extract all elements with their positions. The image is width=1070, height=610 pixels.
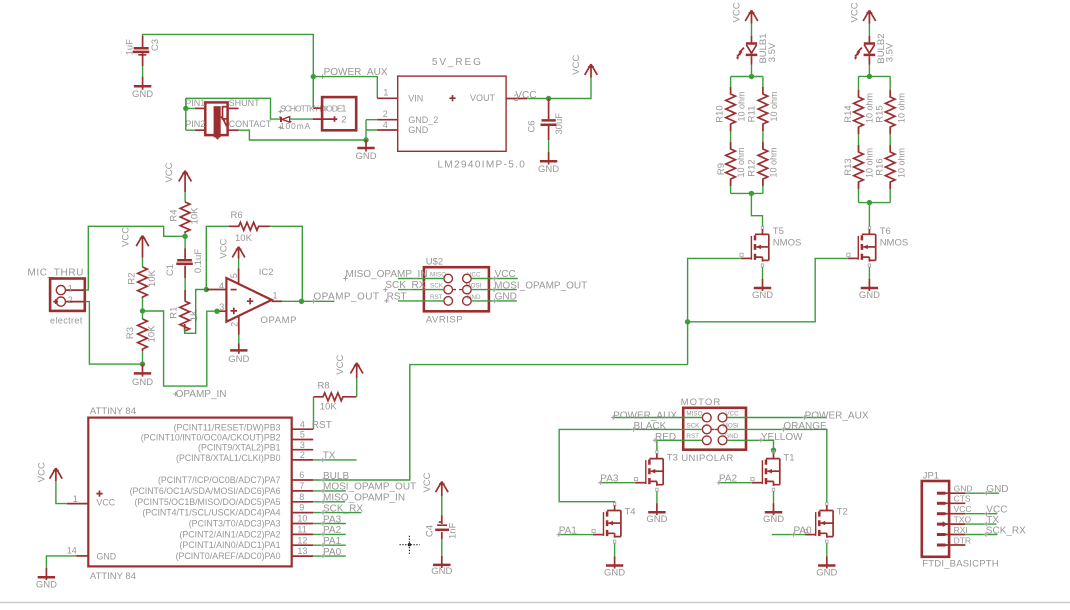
- svg-text:GND: GND: [816, 567, 837, 578]
- svg-text:POWER_AUX: POWER_AUX: [805, 410, 869, 421]
- svg-text:T5: T5: [773, 226, 784, 237]
- pin CTS bar: [937, 502, 946, 505]
- label POWER_AUX: [320, 67, 387, 79]
- wire OPAMP_IN loop (divider to pin3): [143, 311, 218, 386]
- wire ladder2 right rail segments: [889, 76, 891, 202]
- wire BULB1 to ladder: [751, 65, 753, 77]
- wire VCC row right: [471, 278, 518, 280]
- svg-text:GND: GND: [408, 125, 429, 135]
- svg-text:1: 1: [73, 494, 78, 504]
- svg-text:6: 6: [299, 470, 304, 480]
- svg-text:VCC: VCC: [335, 355, 346, 375]
- svg-text:MISO_OPAMP_IN: MISO_OPAMP_IN: [323, 493, 405, 504]
- wire POWER_AUX right: [727, 417, 827, 419]
- pin RXI bar: [937, 533, 946, 536]
- svg-text:VCC: VCC: [422, 472, 433, 492]
- svg-text:PA3: PA3: [323, 514, 342, 525]
- svg-text:30uF: 30uF: [554, 113, 565, 135]
- svg-text:2: 2: [383, 109, 388, 119]
- label SCK_RX (jp1): [984, 525, 1027, 536]
- svg-text:(PCINT6/OC1A/SDA/MOSI/ADC6)PA6: (PCINT6/OC1A/SDA/MOSI/ADC6)PA6: [130, 486, 281, 496]
- wire T2 source to gnd: [826, 543, 828, 556]
- LED BULB1: [736, 33, 778, 64]
- node bulb2 bottom junction: [867, 200, 872, 205]
- label SCHOTTKY DIODE: [278, 103, 343, 113]
- svg-text:(PCINT7/ICP/OC0B/ADC7)PA7: (PCINT7/ICP/OC0B/ADC7)PA7: [158, 475, 281, 485]
- svg-text:R13: R13: [843, 158, 854, 175]
- svg-text:MOSI_OPAMP_OUT: MOSI_OPAMP_OUT: [323, 482, 416, 493]
- svg-text:PA1: PA1: [323, 536, 342, 547]
- svg-text:GND: GND: [752, 290, 773, 301]
- svg-text:VCC: VCC: [97, 497, 116, 507]
- capacitor C3: [124, 36, 161, 66]
- ground GND (attiny): [36, 568, 57, 590]
- resistor R15: [875, 90, 907, 134]
- svg-text:CONTACT: CONTACT: [229, 119, 272, 129]
- capacitor C1: [165, 249, 204, 302]
- power VCC arrow (opamp): [219, 238, 245, 258]
- svg-text:SCK_RX: SCK_RX: [323, 503, 363, 514]
- node pin3 junction: [214, 309, 219, 314]
- svg-text:1K: 1K: [189, 309, 200, 321]
- label RED: [653, 432, 676, 443]
- pin 6 stub: [292, 479, 314, 481]
- svg-text:T6: T6: [880, 226, 891, 237]
- pin 11 stub: [292, 533, 314, 535]
- svg-text:10 ohm: 10 ohm: [769, 91, 779, 121]
- resistor R8: [314, 380, 357, 412]
- svg-text:SCHOTTKY DIODE: SCHOTTKY DIODE: [280, 103, 343, 113]
- svg-text:VCC: VCC: [121, 227, 132, 247]
- svg-text:R15: R15: [875, 105, 886, 122]
- transistor T1 NMOS: [751, 451, 795, 491]
- resistor R12: [747, 142, 779, 186]
- wire pin12: [313, 544, 346, 546]
- resistor R16: [875, 145, 907, 189]
- power VCC arrow (regulator output): [571, 55, 598, 78]
- resistor R6: [229, 210, 270, 244]
- wire VCC to BULB2: [868, 24, 870, 37]
- label VCC (avrisp): [492, 269, 515, 281]
- connector U$2 AVRISP: [424, 257, 489, 326]
- svg-text:GND: GND: [228, 354, 249, 365]
- node bulb1 bottom junction: [749, 191, 754, 196]
- wire VCC to BULB1: [751, 24, 753, 37]
- svg-text:TXO: TXO: [954, 515, 972, 525]
- svg-text:5: 5: [229, 273, 239, 278]
- svg-text:PA3: PA3: [600, 473, 619, 484]
- wire VCC to R2: [142, 247, 144, 258]
- wire R3 to gnd junction: [142, 351, 144, 364]
- svg-text:1nF: 1nF: [448, 522, 459, 539]
- node bulb2 top junction: [867, 74, 872, 79]
- power VCC arrow (attiny): [36, 462, 62, 482]
- pin 1 output: [272, 300, 283, 302]
- svg-text:VCC: VCC: [571, 55, 582, 75]
- svg-text:3.5V: 3.5V: [885, 42, 896, 62]
- label 100mA: [278, 121, 311, 131]
- op-amp IC2: [226, 267, 297, 326]
- label MISO_OPAMP_IN: [343, 269, 427, 281]
- svg-text:T2: T2: [837, 507, 848, 518]
- pin 3 stub: [292, 449, 314, 451]
- svg-text:OPAMP_OUT: OPAMP_OUT: [313, 291, 379, 302]
- node R4/C1 junction: [182, 234, 187, 239]
- wire ladder1 right rail segments: [762, 77, 764, 194]
- svg-text:PIN2: PIN2: [185, 119, 205, 129]
- pin PIN2 lead: [195, 129, 205, 131]
- svg-text:10K: 10K: [146, 325, 157, 343]
- svg-text:R12: R12: [747, 159, 758, 176]
- ground GND (regulator input): [355, 140, 376, 162]
- svg-text:T3: T3: [667, 453, 678, 464]
- svg-text:PIN1: PIN1: [185, 98, 205, 108]
- capacitor C4: [425, 515, 459, 539]
- svg-text:9: 9: [299, 503, 304, 513]
- svg-text:10 ohm: 10 ohm: [896, 148, 906, 178]
- wire SCK_RX (jp1): [965, 534, 997, 536]
- wire SCK row: [398, 289, 444, 291]
- wire C4 to ground: [441, 539, 443, 556]
- pin 12 stub: [292, 544, 314, 546]
- wire jack pins shorted: [186, 98, 195, 130]
- label BULB: [321, 471, 350, 482]
- pin 7 stub: [292, 490, 314, 492]
- wire T2 gate PA0: [772, 534, 805, 536]
- label OPAMP_OUT: [311, 291, 379, 303]
- wire ladder1 bottom rail: [731, 192, 763, 194]
- svg-text:(PCINT8/XTAL1/CLKI)PB0: (PCINT8/XTAL1/CLKI)PB0: [176, 453, 281, 463]
- label GND (jp1): [984, 484, 1008, 495]
- svg-text:FTDI_BASICPTH: FTDI_BASICPTH: [922, 558, 999, 569]
- ground GND (C4): [431, 556, 452, 577]
- resistor R13: [843, 145, 875, 189]
- wire ladder2 bottom rail: [859, 202, 891, 204]
- svg-text:CTS: CTS: [954, 494, 971, 504]
- svg-text:TX: TX: [986, 515, 999, 526]
- svg-text:POWER_AUX: POWER_AUX: [613, 410, 677, 421]
- svg-text:GND_2: GND_2: [408, 115, 438, 125]
- pin VCC bar: [937, 512, 946, 515]
- power VCC arrow (bulb1): [732, 2, 758, 23]
- resistor R9: [716, 142, 746, 186]
- svg-text:10K: 10K: [235, 233, 253, 244]
- svg-text:VOUT: VOUT: [470, 93, 496, 103]
- label PA2 (attiny): [321, 525, 342, 536]
- svg-text:4: 4: [383, 120, 388, 130]
- svg-text:R8: R8: [318, 380, 330, 391]
- wire POWER_AUX to VIN: [313, 77, 377, 99]
- svg-text:VCC: VCC: [495, 269, 516, 280]
- wire pin10: [313, 523, 346, 525]
- wire output to OPAMP_OUT: [282, 300, 334, 302]
- svg-text:R6: R6: [231, 210, 243, 221]
- svg-text:GND: GND: [132, 89, 153, 100]
- wire VOUT to VCC arrow: [527, 78, 591, 99]
- svg-text:2: 2: [341, 115, 346, 126]
- svg-text:SCK: SCK: [686, 422, 700, 429]
- svg-text:OPAMP: OPAMP: [261, 315, 298, 326]
- diode D1 schottky: [279, 117, 291, 123]
- svg-text:R11: R11: [747, 106, 758, 123]
- node gnd rail junction: [363, 137, 368, 142]
- svg-text:GND: GND: [604, 567, 625, 578]
- wire MOSI row right: [471, 289, 517, 291]
- svg-text:C3: C3: [150, 39, 161, 51]
- cursor crosshair: [400, 536, 420, 555]
- svg-text:100mA: 100mA: [280, 121, 311, 131]
- wire T1 gate PA2: [719, 482, 752, 484]
- label PA1 (attiny): [321, 536, 342, 547]
- svg-text:(PCINT10/INT0/OC0A/CKOUT)PB2: (PCINT10/INT0/OC0A/CKOUT)PB2: [141, 432, 281, 442]
- wire pin14 to ground: [46, 556, 76, 568]
- label PA3 (gate): [598, 473, 619, 485]
- ground GND (mic divider): [132, 364, 153, 388]
- wire C3 top to POWER_AUX: [143, 34, 314, 106]
- ground GND (opamp): [228, 344, 249, 365]
- label BLACK: [631, 421, 666, 432]
- svg-text:10K: 10K: [190, 207, 201, 225]
- power VCC arrow (C4): [422, 472, 448, 492]
- label SCK_RX (avrisp): [383, 280, 426, 292]
- label TX (jp1): [984, 515, 999, 526]
- svg-text:5: 5: [300, 430, 305, 440]
- pin 9 stub: [292, 512, 314, 514]
- svg-text:3.5V: 3.5V: [767, 42, 778, 62]
- svg-text:10 ohm: 10 ohm: [865, 93, 875, 123]
- wire GND row right: [471, 300, 517, 302]
- wire TX: [313, 459, 356, 461]
- svg-text:10 ohm: 10 ohm: [865, 148, 875, 178]
- ground GND (T2): [816, 557, 837, 579]
- wire R1 bottom to inverting input: [184, 324, 186, 329]
- wire T4 gate PA1: [559, 534, 593, 536]
- ground GND (T3): [646, 503, 667, 525]
- wire R4 to junction: [184, 233, 186, 249]
- svg-text:ORANGE: ORANGE: [783, 421, 827, 432]
- pin 3 non-inverting: [217, 310, 226, 312]
- svg-text:VCC: VCC: [732, 2, 743, 22]
- svg-text:VCC: VCC: [954, 504, 972, 514]
- power VCC arrow (above R4): [164, 162, 191, 182]
- wire ladder1 left rail segments: [730, 77, 732, 194]
- svg-text:SHUNT: SHUNT: [229, 98, 261, 108]
- svg-text:BULB: BULB: [323, 471, 349, 482]
- svg-text:OPAMP_IN: OPAMP_IN: [176, 389, 227, 400]
- label VCC (jp1): [984, 505, 1007, 516]
- svg-text:GND: GND: [132, 377, 153, 388]
- svg-text:(PCINT5/OC1B/MISO/DO/ADC5)PA5: (PCINT5/OC1B/MISO/DO/ADC5)PA5: [135, 497, 281, 507]
- svg-text:NMOS: NMOS: [773, 238, 802, 249]
- svg-text:electret: electret: [50, 316, 83, 326]
- transistor T2 NMOS: [804, 503, 848, 543]
- wire C6 to ground: [548, 140, 550, 152]
- pin TXO arrow: [937, 521, 948, 527]
- wire BLACK to T4 drain: [559, 429, 702, 502]
- svg-text:7: 7: [299, 481, 304, 491]
- resistor R10: [714, 87, 746, 131]
- resistor R4: [169, 202, 201, 233]
- ground GND (T4): [604, 557, 625, 579]
- svg-text:(PCINT11/RESET/DW)PB3: (PCINT11/RESET/DW)PB3: [174, 422, 281, 432]
- svg-text:GND: GND: [495, 292, 517, 303]
- svg-text:1uF: 1uF: [124, 39, 135, 56]
- svg-text:(PCINT1/AIN0/ADC1)PA1: (PCINT1/AIN0/ADC1)PA1: [179, 540, 280, 550]
- wire MISO row: [398, 278, 444, 280]
- label POWER_AUX (motor left): [611, 410, 677, 421]
- svg-text:GND: GND: [355, 151, 376, 162]
- svg-text:(PCINT2/AIN1/ADC2)PA2: (PCINT2/AIN1/ADC2)PA2: [179, 529, 280, 539]
- transistor T5 NMOS: [740, 226, 801, 267]
- svg-text:10 ohm: 10 ohm: [896, 93, 906, 123]
- svg-text:MISO_OPAMP_IN: MISO_OPAMP_IN: [346, 269, 428, 280]
- pin 5 VCC: [238, 269, 240, 284]
- resistor R14: [843, 90, 875, 134]
- capacitor C6: [527, 99, 566, 141]
- svg-text:RST: RST: [387, 292, 407, 303]
- svg-text:0.1uF: 0.1uF: [193, 249, 204, 273]
- pin 4 GND stub: [377, 129, 397, 131]
- svg-text:C4: C4: [425, 525, 436, 537]
- pin 10 stub: [292, 523, 314, 525]
- power VCC arrow (R8): [335, 355, 363, 375]
- svg-text:GND: GND: [431, 566, 452, 577]
- ground GND (T5): [752, 279, 773, 301]
- resistor R1: [169, 301, 201, 331]
- wire BULB net: [313, 365, 687, 480]
- wire ladder1 top rail: [731, 76, 763, 78]
- label POWER_AUX (motor right): [802, 410, 868, 421]
- wire R8 to RST pin: [313, 397, 315, 429]
- svg-text:1: 1: [341, 103, 346, 114]
- connector MIC_THRU electret: [28, 267, 85, 325]
- svg-text:10K: 10K: [147, 269, 158, 287]
- svg-text:T4: T4: [625, 507, 636, 518]
- svg-text:VCC: VCC: [515, 90, 536, 101]
- wire T1 source to gnd: [773, 492, 775, 504]
- node OPAMP_OUT junction: [299, 299, 304, 304]
- label MOSI_OPAMP_OUT (attiny): [321, 482, 416, 493]
- pin 14 GND stub: [76, 555, 88, 557]
- svg-text:VIN: VIN: [408, 93, 423, 103]
- svg-text:1: 1: [273, 290, 278, 300]
- wire RST row: [398, 300, 444, 302]
- transistor T4 NMOS: [592, 503, 636, 543]
- svg-text:GND: GND: [763, 514, 784, 525]
- connector MOTOR: [681, 397, 746, 464]
- ground GND (T6): [859, 279, 880, 301]
- svg-text:GND: GND: [954, 483, 973, 493]
- label RST (avrisp): [384, 292, 406, 303]
- node yellow junction: [771, 448, 776, 453]
- svg-text:PA2: PA2: [719, 473, 738, 484]
- svg-text:10 ohm: 10 ohm: [737, 91, 747, 121]
- wire pin7: [313, 490, 346, 492]
- svg-text:ATTINY 84: ATTINY 84: [90, 571, 136, 582]
- svg-text:C6: C6: [527, 120, 538, 132]
- svg-text:R4: R4: [169, 209, 180, 221]
- svg-text:4: 4: [219, 281, 224, 291]
- wire pin11: [313, 533, 346, 535]
- resistor R3: [125, 319, 157, 351]
- label PA3 (attiny): [321, 514, 342, 525]
- power VCC arrow (above R2): [121, 227, 149, 247]
- wire T6 source to gnd: [868, 267, 870, 279]
- wire ladder2 top rail: [859, 75, 891, 77]
- svg-text:2: 2: [230, 322, 240, 327]
- wire GND (jp1): [965, 492, 999, 494]
- wire TX (jp1): [965, 523, 996, 525]
- node divider junction: [140, 308, 145, 313]
- pin SHUNT lead: [228, 107, 239, 109]
- svg-text:PA0: PA0: [323, 547, 342, 558]
- svg-text:8: 8: [299, 492, 304, 502]
- wire MIC pin1 to R4 junction: [85, 226, 185, 290]
- svg-text:AVRISP: AVRISP: [426, 314, 463, 325]
- svg-text:RST: RST: [430, 294, 443, 301]
- svg-text:TX: TX: [323, 451, 336, 462]
- svg-text:5V_REG: 5V_REG: [432, 57, 483, 68]
- svg-text:1: 1: [383, 88, 388, 98]
- svg-text:SCK_RX: SCK_RX: [986, 525, 1026, 536]
- svg-text:10 ohm: 10 ohm: [736, 147, 746, 177]
- svg-text:10K: 10K: [320, 401, 338, 412]
- svg-text:PA1: PA1: [559, 525, 578, 536]
- svg-text:PA0: PA0: [794, 525, 813, 536]
- wire CONTACT to gnd rail: [239, 130, 367, 140]
- svg-text:(PCINT9/XTAL2)PB1: (PCINT9/XTAL2)PB1: [198, 443, 281, 453]
- resistor R2: [126, 267, 158, 298]
- pin 8 stub: [292, 501, 314, 503]
- wire ORANGE to T2 drain: [727, 429, 827, 502]
- pin CONTACT lead: [228, 129, 239, 131]
- node bulb1 top junction: [749, 74, 754, 79]
- svg-text:R9: R9: [716, 163, 727, 175]
- node gate net junction: [685, 319, 690, 324]
- resistor R11: [747, 87, 779, 131]
- label ORANGE: [781, 421, 827, 432]
- svg-text:MOTOR: MOTOR: [681, 397, 722, 408]
- svg-text:GND: GND: [36, 579, 57, 590]
- wire ladder1 to T5 drain: [751, 193, 762, 226]
- window bottom edge line: [0, 602, 1070, 604]
- wire BULB gate net T5/T6: [688, 258, 848, 364]
- wire T4 source to gnd: [614, 543, 616, 556]
- svg-text:VCC: VCC: [850, 2, 861, 22]
- pin 3 VOUT stub: [506, 98, 527, 100]
- label MISO_OPAMP_IN (attiny): [321, 493, 405, 504]
- svg-text:11: 11: [297, 525, 306, 535]
- svg-text:1: 1: [68, 284, 73, 294]
- connector JP1 FTDI_BASICPTH: [922, 470, 999, 569]
- wire R6 to output: [270, 226, 302, 301]
- wire BULB2 to ladder: [868, 65, 870, 77]
- pin 2 GND: [238, 316, 240, 335]
- svg-text:MIC_THRU: MIC_THRU: [28, 267, 84, 278]
- battery box B1: [322, 97, 356, 130]
- svg-text:RXI: RXI: [954, 525, 968, 535]
- svg-text:(PCINT3/T0/ADC3)PA3: (PCINT3/T0/ADC3)PA3: [189, 519, 281, 529]
- pin 5 stub: [292, 439, 314, 441]
- svg-text:ATTINY 84: ATTINY 84: [90, 406, 136, 417]
- node jack junction: [183, 106, 188, 111]
- IC1 voltage regulator 5V_REG box: [398, 57, 527, 171]
- svg-text:10 ohm: 10 ohm: [769, 147, 779, 177]
- pin 4 stub: [292, 428, 314, 430]
- transistor T3 NMOS: [634, 451, 678, 491]
- svg-text:UNIPOLAR: UNIPOLAR: [681, 453, 734, 464]
- svg-text:4: 4: [300, 419, 305, 429]
